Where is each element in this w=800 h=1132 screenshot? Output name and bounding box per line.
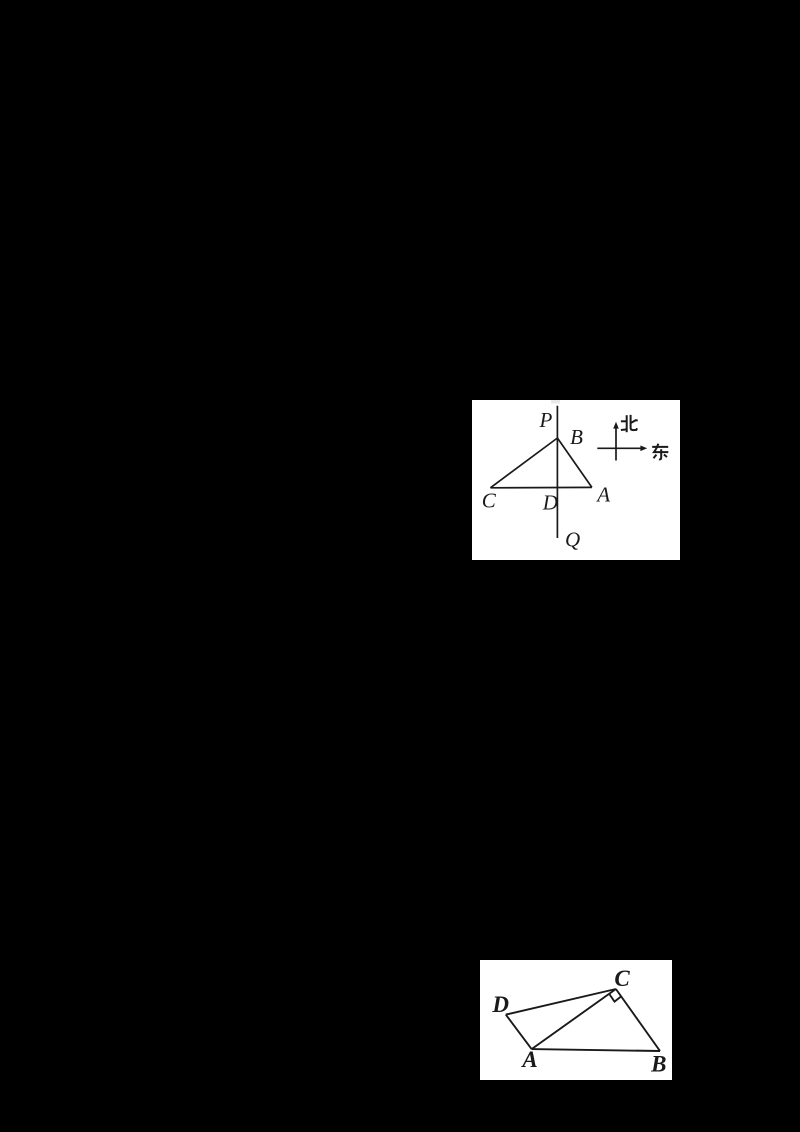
svg-text:D: D xyxy=(491,992,509,1017)
panel 1: bearing diagram xyxy=(472,400,680,560)
svg-text:D: D xyxy=(542,490,558,514)
svg-text:B: B xyxy=(650,1052,666,1077)
compass vertical arrow (north) xyxy=(615,426,617,461)
svg-text:C: C xyxy=(482,488,497,512)
wire: triangle side BC xyxy=(490,438,557,488)
wire: side AB xyxy=(532,1049,660,1051)
glyph bei (north) xyxy=(621,414,638,431)
svg-text:C: C xyxy=(614,966,630,991)
glyph dong (east) xyxy=(652,443,668,459)
svg-text:Q: Q xyxy=(565,527,580,551)
svg-text:A: A xyxy=(595,482,610,506)
wire: triangle side CA xyxy=(490,486,592,488)
wire: triangle side BA xyxy=(557,438,592,487)
panel 2: quadrilateral ABCD xyxy=(480,960,672,1080)
wire: side BC xyxy=(616,989,660,1051)
svg-text:P: P xyxy=(538,408,552,432)
right-angle mark at C xyxy=(610,994,621,1001)
arrowhead north xyxy=(613,421,619,428)
wire: diagonal AC xyxy=(532,989,616,1049)
wire: line PQ vertical xyxy=(556,405,558,537)
faint top artifact xyxy=(551,400,560,404)
compass horizontal arrow (east) xyxy=(597,447,642,449)
arrowhead east xyxy=(640,445,647,451)
wire: side DA xyxy=(506,1015,532,1050)
svg-text:A: A xyxy=(520,1047,537,1072)
svg-text:B: B xyxy=(570,425,583,449)
wire: side DC xyxy=(506,989,616,1015)
